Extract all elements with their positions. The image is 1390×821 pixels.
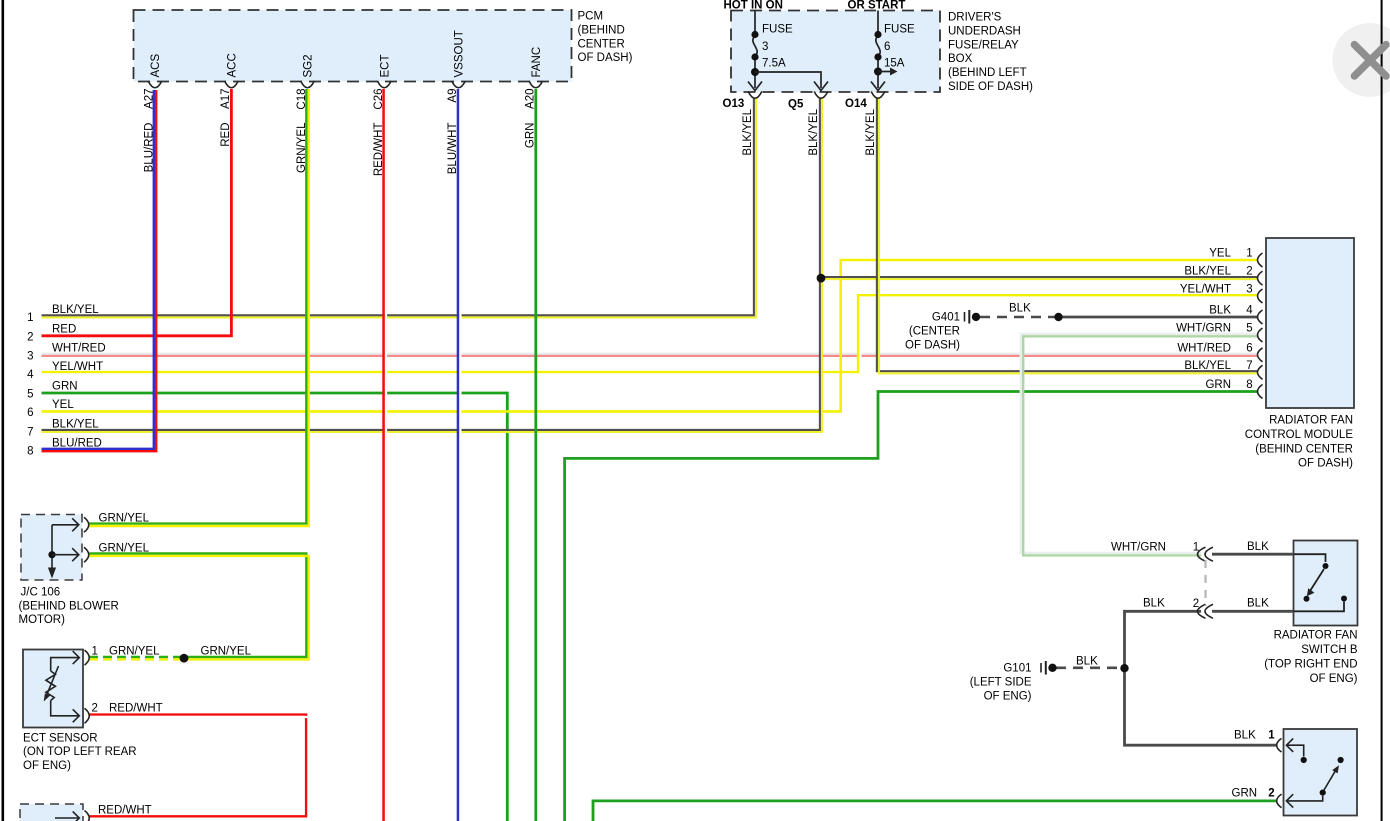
svg-text:UNDERDASH: UNDERDASH xyxy=(948,25,1021,37)
label left connector row numbers xyxy=(27,312,34,458)
svg-text:6: 6 xyxy=(1246,342,1252,354)
svg-text:BLU/RED: BLU/RED xyxy=(52,438,102,450)
svg-text:C18: C18 xyxy=(296,89,308,110)
svg-text:RED/WHT: RED/WHT xyxy=(373,123,385,177)
label BLK at G401 xyxy=(1009,303,1031,315)
wire BLK G101 dashed xyxy=(1056,666,1122,669)
svg-text:WHT/GRN: WHT/GRN xyxy=(1176,323,1231,335)
label left row wire colors xyxy=(52,304,106,450)
svg-text:(TOP RIGHT END: (TOP RIGHT END xyxy=(1264,659,1357,671)
label fuse box caption xyxy=(948,12,1033,94)
svg-text:1: 1 xyxy=(92,646,98,658)
svg-text:SG2: SG2 xyxy=(303,54,315,77)
label bottom component wire RED/WHT xyxy=(98,805,152,817)
label J/C 106 caption xyxy=(19,587,119,626)
wire fuse O14 BLK/YEL to module pin 7 xyxy=(877,98,1257,373)
svg-text:BOX: BOX xyxy=(948,53,973,65)
svg-text:3: 3 xyxy=(762,41,768,53)
svg-text:YEL/WHT: YEL/WHT xyxy=(1180,284,1231,296)
junction dot G401 to pin 4 xyxy=(1054,313,1062,321)
label ECT sensor caption xyxy=(23,732,137,772)
svg-text:A27: A27 xyxy=(144,89,156,109)
svg-text:2: 2 xyxy=(1246,266,1252,278)
svg-text:OR START: OR START xyxy=(848,0,906,12)
ECT sensor box xyxy=(23,650,83,728)
svg-text:O13: O13 xyxy=(723,98,745,110)
wire row 8 BLU/RED to PCM ACS xyxy=(42,90,157,451)
ground G401 symbol xyxy=(965,310,981,324)
page border left xyxy=(1,0,4,821)
svg-text:BLK: BLK xyxy=(1234,730,1256,742)
svg-text:GRN: GRN xyxy=(52,381,78,393)
radiator fan switch B box xyxy=(1294,541,1358,626)
svg-text:MOTOR): MOTOR) xyxy=(19,614,66,626)
svg-text:GRN/YEL: GRN/YEL xyxy=(99,513,150,525)
label switch B pin 2 xyxy=(1143,598,1269,611)
svg-text:WHT/GRN: WHT/GRN xyxy=(1111,542,1166,554)
wire row 4 YEL/WHT to module pin 3 xyxy=(42,295,1258,374)
label bottom switch pin 2 xyxy=(1232,788,1275,800)
label PCM caption xyxy=(578,11,633,65)
svg-text:2: 2 xyxy=(1268,788,1274,800)
svg-text:7: 7 xyxy=(1246,360,1252,372)
svg-text:1: 1 xyxy=(27,312,33,324)
connector arcs J/C 106 pins xyxy=(84,517,89,562)
svg-text:1: 1 xyxy=(1268,730,1275,742)
wire row 3 WHT/RED from pin 3 to module pin 6 xyxy=(42,354,1258,356)
svg-text:BLU/RED: BLU/RED xyxy=(144,123,156,173)
wire dashed GRN/YEL ECT sensor pin 1 xyxy=(89,657,181,659)
label HOT IN ON / OR START xyxy=(724,0,906,12)
svg-text:Q5: Q5 xyxy=(788,99,804,111)
wire BLK switch B pin 1 connector to box xyxy=(1212,553,1294,556)
svg-text:GRN: GRN xyxy=(1232,788,1258,800)
svg-text:(LEFT SIDE: (LEFT SIDE xyxy=(970,677,1032,689)
svg-text:O14: O14 xyxy=(845,98,867,110)
svg-text:FUSE: FUSE xyxy=(762,24,793,36)
wire row 2 RED to PCM ACC xyxy=(42,89,232,336)
svg-text:RADIATOR FAN: RADIATOR FAN xyxy=(1274,630,1358,642)
svg-text:DRIVER'S: DRIVER'S xyxy=(948,12,1002,24)
switch B internal contacts xyxy=(1294,554,1348,611)
svg-text:C26: C26 xyxy=(373,89,385,110)
svg-text:A20: A20 xyxy=(524,89,536,109)
svg-text:YEL: YEL xyxy=(52,399,74,411)
svg-text:7.5A: 7.5A xyxy=(762,58,786,70)
svg-text:OF DASH): OF DASH) xyxy=(905,340,960,352)
label switch B pin 1 xyxy=(1111,541,1269,554)
svg-text:BLK: BLK xyxy=(1143,598,1165,610)
wire row 5 GRN down off-page xyxy=(42,393,508,821)
svg-text:2: 2 xyxy=(27,331,33,343)
bottom switch connector arcs xyxy=(1277,738,1282,807)
wire row 1 BLK/YEL to fuse O13 xyxy=(42,98,757,317)
svg-text:ECT SENSOR: ECT SENSOR xyxy=(23,732,98,744)
radiator fan switch (bottom) box xyxy=(1284,729,1358,816)
switch B connector double arcs xyxy=(1198,547,1214,618)
label PCM wire colors xyxy=(144,122,537,176)
label bottom switch pin 1 xyxy=(1234,730,1275,742)
label fuse 3 values xyxy=(762,24,793,70)
label G401 xyxy=(905,312,960,352)
svg-text:CONTROL MODULE: CONTROL MODULE xyxy=(1245,429,1354,441)
wire PCM ECT RED/WHT down off-page xyxy=(384,89,386,821)
ground G101 symbol xyxy=(1041,661,1057,675)
wire BLK switch B pin 2 connector to box xyxy=(1212,610,1294,613)
wire PCM SG2 GRN/YEL down to J/C 106 wire 1 xyxy=(89,89,309,526)
svg-text:VSSOUT: VSSOUT xyxy=(454,30,466,77)
close button X glyph xyxy=(1354,45,1386,76)
svg-text:BLK/YEL: BLK/YEL xyxy=(1184,360,1231,372)
svg-text:BLK/YEL: BLK/YEL xyxy=(52,304,99,316)
svg-text:BLK: BLK xyxy=(1076,656,1098,668)
svg-text:ACS: ACS xyxy=(150,54,162,78)
svg-text:FUSE/RELAY: FUSE/RELAY xyxy=(948,39,1019,51)
svg-text:RED/WHT: RED/WHT xyxy=(98,805,152,817)
svg-text:(BEHIND: (BEHIND xyxy=(578,24,625,36)
svg-text:RADIATOR FAN: RADIATOR FAN xyxy=(1269,415,1353,427)
junction dot Q5 branch xyxy=(817,274,826,283)
svg-text:ACC: ACC xyxy=(226,53,238,77)
wire J/C 106 wire 2 GRN/YEL down to ECT junction xyxy=(89,554,309,660)
label G101 xyxy=(970,663,1032,703)
wire branch BLK/YEL from Q5 junction to module pin 2 xyxy=(821,277,1257,279)
svg-text:4: 4 xyxy=(1246,305,1253,317)
label switch B caption xyxy=(1264,630,1358,686)
svg-text:BLK: BLK xyxy=(1209,305,1231,317)
svg-text:15A: 15A xyxy=(884,58,905,70)
svg-text:FANC: FANC xyxy=(531,47,543,78)
bottom dashed box (cropped component) xyxy=(20,804,83,821)
svg-text:RED: RED xyxy=(220,123,232,147)
svg-text:GRN/YEL: GRN/YEL xyxy=(201,646,252,658)
svg-text:SIDE OF DASH): SIDE OF DASH) xyxy=(948,81,1033,93)
svg-text:BLK/YEL: BLK/YEL xyxy=(865,108,877,155)
wire ECT sensor pin 2 RED/WHT U-path to bottom component xyxy=(89,715,309,819)
wire module pin 5 WHT/GRN to switch B pin 1 xyxy=(1021,334,1257,556)
svg-text:HOT IN ON: HOT IN ON xyxy=(724,0,783,12)
connector arcs ECT sensor pins xyxy=(85,650,90,723)
PCM box xyxy=(134,10,572,82)
svg-text:RED/WHT: RED/WHT xyxy=(109,703,163,715)
svg-text:G401: G401 xyxy=(932,312,960,324)
label PCM pin numbers xyxy=(144,89,537,110)
junction dot GRN/YEL near ECT pin 1 xyxy=(180,654,189,663)
fuse 3 (7.5A) symbol xyxy=(748,11,762,91)
wire BLK G401 dashed xyxy=(980,316,1056,319)
label fuse 6 values xyxy=(884,24,915,70)
svg-text:(BEHIND LEFT: (BEHIND LEFT xyxy=(948,67,1027,79)
svg-text:1: 1 xyxy=(1246,248,1252,260)
svg-text:8: 8 xyxy=(1246,379,1252,391)
label PCM pin names xyxy=(150,30,543,77)
svg-text:GRN/YEL: GRN/YEL xyxy=(296,122,308,173)
radiator fan control module box xyxy=(1266,238,1354,408)
svg-text:3: 3 xyxy=(27,351,33,363)
label fuse outputs O13 Q5 O14 xyxy=(723,98,868,111)
svg-text:GRN: GRN xyxy=(1205,379,1231,391)
label BLK at G101 xyxy=(1076,656,1098,668)
svg-text:OF DASH): OF DASH) xyxy=(1298,458,1353,470)
label module pin numbers xyxy=(1246,248,1253,392)
svg-text:(BEHIND CENTER: (BEHIND CENTER xyxy=(1255,443,1353,455)
bottom switch internal contacts xyxy=(1286,739,1343,808)
svg-text:BLK/YEL: BLK/YEL xyxy=(52,419,99,431)
svg-text:BLK/YEL: BLK/YEL xyxy=(1184,266,1231,278)
label ECT pin 1 wires xyxy=(92,646,252,658)
wire BLK G401 solid to module pin 4 xyxy=(1061,316,1257,319)
wire PCM VSSOUT BLU/WHT down off-page xyxy=(458,89,460,821)
connector arcs under PCM pins xyxy=(148,81,542,88)
svg-text:WHT/RED: WHT/RED xyxy=(52,343,106,355)
connector arcs under fuse box O13 Q5 O14 xyxy=(748,92,885,99)
wire BLK switch B pin 2 with vertical to bottom switch pin 1 xyxy=(1125,611,1277,745)
svg-text:RED: RED xyxy=(52,324,76,336)
svg-text:ECT: ECT xyxy=(379,55,391,78)
close button xyxy=(1333,23,1390,97)
svg-text:3: 3 xyxy=(1246,284,1252,296)
svg-text:A9: A9 xyxy=(447,89,459,103)
svg-text:BLK: BLK xyxy=(1009,303,1031,315)
svg-text:(CENTER: (CENTER xyxy=(909,326,960,338)
svg-text:1: 1 xyxy=(1193,542,1199,554)
label ECT pin 2 wire xyxy=(92,703,163,715)
svg-text:FUSE: FUSE xyxy=(884,24,915,36)
svg-text:2: 2 xyxy=(92,703,98,715)
svg-text:BLK/YEL: BLK/YEL xyxy=(808,108,820,155)
svg-text:YEL: YEL xyxy=(1209,248,1231,260)
svg-text:(ON TOP LEFT REAR: (ON TOP LEFT REAR xyxy=(23,746,137,758)
svg-text:5: 5 xyxy=(1246,323,1252,335)
switch B connector dashed link xyxy=(1204,560,1206,606)
label module wire colors xyxy=(1176,248,1232,392)
svg-text:J/C 106: J/C 106 xyxy=(21,587,61,599)
svg-text:7: 7 xyxy=(27,427,33,439)
svg-text:GRN/YEL: GRN/YEL xyxy=(99,543,150,555)
wire GRN bottom switch pin 2 from off-page xyxy=(593,801,1276,821)
svg-text:GRN/YEL: GRN/YEL xyxy=(109,646,160,658)
svg-text:YEL/WHT: YEL/WHT xyxy=(52,361,103,373)
wire module pin 8 GRN long path down off-page xyxy=(565,392,1257,821)
label module caption xyxy=(1245,415,1354,470)
svg-text:BLK: BLK xyxy=(1247,541,1269,553)
svg-text:PCM: PCM xyxy=(578,11,604,23)
svg-text:OF ENG): OF ENG) xyxy=(23,760,71,772)
junction dot G101 on BLK wire xyxy=(1120,664,1128,672)
svg-text:OF ENG): OF ENG) xyxy=(1310,673,1358,685)
svg-text:WHT/RED: WHT/RED xyxy=(1177,342,1231,354)
svg-text:5: 5 xyxy=(27,389,33,401)
svg-text:(BEHIND BLOWER: (BEHIND BLOWER xyxy=(19,600,119,612)
wire row 7 BLK/YEL to fuse Q5 xyxy=(42,98,823,432)
wire PCM FANC GRN down off-page xyxy=(534,89,537,821)
svg-text:2: 2 xyxy=(1193,598,1199,610)
svg-text:GRN: GRN xyxy=(524,123,536,149)
svg-text:BLK: BLK xyxy=(1247,598,1269,610)
fuse 6 (15A) symbol xyxy=(871,11,898,91)
svg-text:A17: A17 xyxy=(220,89,232,109)
ECT sensor thermistor symbol xyxy=(44,651,80,722)
svg-text:BLU/WHT: BLU/WHT xyxy=(447,123,459,175)
svg-text:8: 8 xyxy=(27,446,33,458)
svg-text:6: 6 xyxy=(27,407,33,419)
svg-text:SWITCH B: SWITCH B xyxy=(1301,644,1358,656)
svg-text:CENTER: CENTER xyxy=(578,38,625,50)
fuse box DRIVER'S UNDERDASH xyxy=(731,11,940,93)
fuse 3 branch to Q5 output xyxy=(755,72,828,91)
J/C 106 internal bus with arrows xyxy=(48,518,79,578)
svg-text:6: 6 xyxy=(884,41,890,53)
svg-text:G101: G101 xyxy=(1003,663,1031,675)
page border right xyxy=(1381,0,1383,821)
svg-text:BLK/YEL: BLK/YEL xyxy=(742,108,754,155)
wire row 6 YEL to module pin 1 xyxy=(42,260,1258,411)
label J/C 106 wires GRN/YEL xyxy=(99,513,150,555)
svg-text:OF ENG): OF ENG) xyxy=(984,691,1032,703)
junction connector J/C 106 box xyxy=(21,515,82,581)
connector arcs module pins 1-8 xyxy=(1258,253,1263,399)
svg-text:OF DASH): OF DASH) xyxy=(578,52,633,64)
svg-text:4: 4 xyxy=(27,369,34,381)
label fuse output wire colors BLK/YEL xyxy=(742,108,877,155)
connector arc bottom dashed component xyxy=(55,811,89,821)
